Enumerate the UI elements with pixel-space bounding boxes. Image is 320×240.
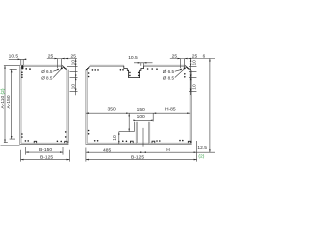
dim 10.5 top-left [9,54,27,66]
leader dia 6.5 left [53,70,57,72]
right plate left hole column [88,72,90,74]
svg-text:B-125: B-125 [131,155,144,161]
dim 10.5 right plate notch [128,55,152,66]
dim 10 10 right plate [189,59,198,96]
svg-text:A-150: A-150 [6,95,12,108]
dim 10 10 right of left plate [67,59,78,96]
svg-text:6: 6 [203,53,206,58]
small dim left of notch [128,113,130,131]
dim B-150 [26,147,63,155]
svg-text:12.5: 12.5 [197,145,207,151]
svg-text:10: 10 [70,84,76,90]
svg-text:(2): (2) [198,154,204,160]
leader dia 6.5 right [175,70,181,72]
right plate top hole row [92,69,94,71]
svg-text:10.5: 10.5 [9,54,19,60]
right plate bottom hole row [94,140,96,142]
dim 12.5 (2) [197,141,208,162]
right plate bottom edge emphasis [86,144,192,146]
right plate bottom notch [136,122,149,145]
svg-text:25: 25 [48,53,54,59]
svg-text:Ø 8.5: Ø 8.5 [163,76,175,81]
dim A-110 (2) [0,66,20,143]
left plate right hole column [65,131,67,133]
right plate top notch [124,66,144,78]
left bottom edge extension [1,145,20,147]
svg-text:10: 10 [192,60,198,66]
left plate bottom edge emphasis [20,144,69,146]
svg-text:Ø 6.5: Ø 6.5 [163,69,175,74]
leader dia 8.5 left [53,69,61,78]
right plate right hole column [184,73,186,75]
left plate top-right corner step [62,66,67,70]
right plate bottom tabs [130,141,190,143]
svg-text:25: 25 [172,53,178,59]
svg-text:A-110 (2): A-110 (2) [0,88,6,108]
svg-text:B-125: B-125 [40,155,53,161]
svg-text:25: 25 [192,54,198,60]
right plate bottom notch center line [142,128,144,147]
svg-text:10: 10 [70,60,76,66]
dim 100 [133,114,152,121]
left plate bottom hole row [25,140,27,142]
right plate corner hole large [184,67,186,69]
svg-text:B-150: B-150 [39,147,52,153]
svg-text:100: 100 [137,114,145,120]
left plate top-left slot [21,65,23,69]
dim 485 and H line [86,147,215,153]
dim A-150 [6,69,17,139]
svg-text:H: H [166,147,170,153]
dim H total height right side [203,53,211,152]
dim B-125 left plate [21,150,70,162]
svg-text:10.5: 10.5 [128,55,138,61]
right plate top-right corner step [185,66,191,70]
dim row 350 150 H-85 [86,106,190,131]
right plate corner hole small [180,69,182,71]
dim 25 25 right plate [170,53,215,68]
leader dia 8.5 right [175,69,185,78]
left plate outline [20,65,69,145]
right plate outline [86,65,192,145]
dim 25 25 left plate [47,53,77,68]
svg-text:Ø 6.5: Ø 6.5 [41,69,53,74]
dim B-125 right plate [86,148,197,162]
svg-text:350: 350 [108,107,116,113]
svg-text:485: 485 [103,147,111,153]
left plate top hole row [25,68,27,70]
left plate left hole column [21,71,23,73]
svg-text:H-85: H-85 [165,106,176,112]
svg-text:Ø 8.5: Ø 8.5 [41,75,53,80]
svg-text:10: 10 [112,135,118,141]
right plate notch hole columns [129,72,131,74]
svg-text:10: 10 [192,84,198,90]
left plate corner hole small [57,69,59,71]
left plate bottom tabs [34,141,67,143]
svg-text:150: 150 [137,107,145,113]
dim 10 bottom-left right plate [112,132,134,144]
right plate top-left corner step [86,67,89,71]
svg-text:25: 25 [71,53,77,59]
left plate corner hole large [61,67,63,69]
